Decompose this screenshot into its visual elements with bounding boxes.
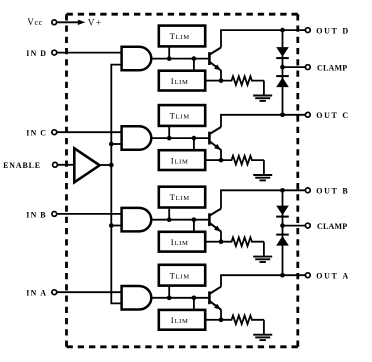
arrowhead V+ xyxy=(78,20,85,25)
junction CLAMP BA xyxy=(280,223,285,228)
svg-text:CLAMP: CLAMP xyxy=(317,222,347,231)
terminal IN C xyxy=(52,130,57,135)
wire ILIM A stub xyxy=(193,298,195,310)
svg-text:IN: IN xyxy=(26,49,37,58)
wire TLIM D stub xyxy=(168,47,170,59)
junction gate B out / TLIM xyxy=(167,217,172,222)
junction OUT B diodes xyxy=(280,188,285,193)
svg-text:OUT: OUT xyxy=(316,271,338,280)
transistor QC xyxy=(209,127,221,150)
block TLIM D xyxy=(159,26,205,47)
wire collector QC to OUT C rail xyxy=(221,115,305,127)
svg-text:B: B xyxy=(40,210,46,219)
wire emitter QB down xyxy=(220,231,222,242)
svg-text:D: D xyxy=(40,49,46,58)
junction emitter QD xyxy=(219,78,224,83)
label IN A xyxy=(26,289,46,298)
terminal OUT A xyxy=(305,273,310,278)
junction gate B out / ILIM xyxy=(192,217,197,222)
wire ILIM D output to emitter xyxy=(205,80,221,82)
package dashed outline xyxy=(67,14,298,347)
wire TLIM C stub xyxy=(168,126,170,138)
wire gate C output to transistor base xyxy=(151,137,208,139)
junction emitter QA xyxy=(219,317,224,322)
wire emitter QD down xyxy=(220,70,222,81)
block TLIM A xyxy=(159,265,205,286)
transistor QB xyxy=(209,209,221,232)
wire IN A to gate A xyxy=(57,291,121,293)
svg-text:IN: IN xyxy=(26,210,37,219)
resistor RC xyxy=(221,156,264,165)
wire clamp column OUT B to OUT A xyxy=(282,190,284,275)
wire TLIM B stub xyxy=(168,208,170,220)
junction bus/gate C xyxy=(109,142,114,147)
junction gate C out / TLIM xyxy=(167,136,172,141)
wire gate A output to transistor base xyxy=(151,297,208,299)
wire TLIM A stub xyxy=(168,286,170,298)
label IN D xyxy=(26,49,46,58)
svg-text:C: C xyxy=(40,129,46,138)
ground channel D xyxy=(253,96,272,101)
svg-text:A: A xyxy=(342,271,348,280)
diode D2 OUT C to CLAMP xyxy=(276,76,289,87)
wire bus to gate C xyxy=(111,143,121,145)
wire IN C to gate C xyxy=(57,131,121,133)
junction OUT A diodes xyxy=(280,273,285,278)
wire gate D output to transistor base xyxy=(151,58,208,60)
resistor RD xyxy=(221,76,264,85)
label IN B xyxy=(26,210,46,219)
block ILIM C xyxy=(159,150,205,170)
wire buffer output to enable bus xyxy=(100,164,112,166)
AND gate D xyxy=(122,47,152,71)
terminal CLAMP xyxy=(305,65,310,70)
wire collector QB to OUT B rail xyxy=(221,190,305,208)
wire CLAMP BA xyxy=(283,225,306,227)
svg-text:C: C xyxy=(342,111,348,120)
wire bus to gate B xyxy=(111,225,121,227)
transistor QA xyxy=(209,287,221,310)
label OUT D xyxy=(316,26,348,35)
wire emitter QC down xyxy=(220,150,222,161)
label OUT B xyxy=(316,187,348,196)
transistor QD xyxy=(209,48,221,71)
label OUT A xyxy=(316,271,348,280)
terminal Vcc xyxy=(52,20,57,25)
junction gate A out / TLIM xyxy=(167,295,172,300)
ground channel A xyxy=(253,335,272,340)
svg-text:V+: V+ xyxy=(88,19,103,29)
junction bus/gate B xyxy=(109,223,114,228)
AND gate C xyxy=(122,126,152,150)
ground channel B xyxy=(253,257,272,262)
junction CLAMP DC xyxy=(280,65,285,70)
wire ILIM C stub xyxy=(193,138,195,150)
junction emitter QC xyxy=(219,158,224,163)
terminal OUT C xyxy=(305,112,310,117)
diode D1 OUT D to CLAMP xyxy=(276,47,289,58)
diode D3 OUT B to CLAMP xyxy=(276,206,289,217)
svg-text:A: A xyxy=(40,289,46,298)
block ILIM D xyxy=(159,71,205,91)
svg-text:ENABLE: ENABLE xyxy=(3,161,41,170)
wire ILIM D stub xyxy=(193,59,195,71)
resistor RB xyxy=(221,237,264,246)
svg-text:IN: IN xyxy=(26,129,37,138)
block TLIM B xyxy=(159,187,205,208)
terminal OUT B xyxy=(305,188,310,193)
block TLIM C xyxy=(159,105,205,126)
svg-text:D: D xyxy=(342,26,348,35)
wire CLAMP DC xyxy=(283,66,306,68)
wire collector QD to OUT D rail xyxy=(221,30,305,47)
diode D4 OUT A to CLAMP xyxy=(276,235,289,246)
AND gate B xyxy=(122,208,152,232)
wire gate B output to transistor base xyxy=(151,219,208,221)
block ILIM B xyxy=(159,232,205,252)
block ILIM A xyxy=(159,310,205,330)
wire ENABLE to buffer xyxy=(58,164,75,166)
junction bus/buffer xyxy=(109,163,114,168)
junction emitter QB xyxy=(219,239,224,244)
junction gate C out / ILIM xyxy=(192,136,197,141)
wire IN B to gate B xyxy=(57,213,121,215)
AND gate A xyxy=(122,286,152,310)
wire ILIM A output to emitter xyxy=(205,319,221,321)
buffer U5 ENABLE xyxy=(74,148,99,182)
junction gate A out / ILIM xyxy=(192,295,197,300)
junction OUT D diodes xyxy=(280,28,285,33)
svg-text:Vcc: Vcc xyxy=(27,17,43,27)
terminal IN D xyxy=(52,50,57,55)
ground channel C xyxy=(253,175,272,180)
label OUT C xyxy=(316,111,348,120)
wire collector QA to OUT A rail xyxy=(221,275,305,287)
svg-text:IN: IN xyxy=(26,289,37,298)
enable bus vertical xyxy=(111,65,121,304)
junction OUT C diodes xyxy=(280,112,285,117)
junction gate D out / ILIM xyxy=(192,56,197,61)
terminal ENABLE xyxy=(53,162,58,167)
terminal IN B xyxy=(52,212,57,217)
label IN C xyxy=(26,129,46,138)
wire resistor RC to ground xyxy=(263,160,265,174)
wire resistor RA to ground xyxy=(263,320,265,334)
wire ILIM B output to emitter xyxy=(205,241,221,243)
terminal CLAMP xyxy=(305,223,310,228)
svg-text:CLAMP: CLAMP xyxy=(317,63,347,72)
wire resistor RD to ground xyxy=(263,81,265,95)
wire clamp column OUT D to OUT C xyxy=(282,30,284,115)
junction gate D out / TLIM xyxy=(167,56,172,61)
wire Vcc to V+ arrow xyxy=(57,21,79,23)
svg-text:OUT: OUT xyxy=(316,111,338,120)
wire IN D to gate D xyxy=(57,52,121,54)
wire emitter QA down xyxy=(220,309,222,320)
svg-text:OUT: OUT xyxy=(316,187,338,196)
resistor RA xyxy=(221,316,264,325)
terminal OUT D xyxy=(305,28,310,33)
terminal IN A xyxy=(52,290,57,295)
svg-text:OUT: OUT xyxy=(316,26,338,35)
wire ILIM C output to emitter xyxy=(205,159,221,161)
wire resistor RB to ground xyxy=(263,242,265,256)
wire ILIM B stub xyxy=(193,220,195,232)
svg-text:B: B xyxy=(342,187,348,196)
